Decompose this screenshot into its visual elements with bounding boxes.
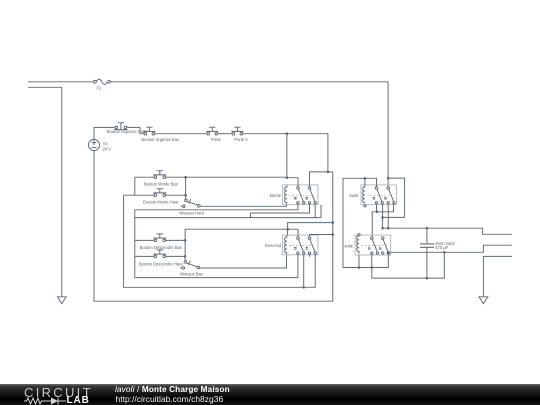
node jog [332,221,335,224]
contact 1 [297,187,300,190]
svg-text:24 V: 24 V [103,146,112,151]
wire descend t1 rail [135,254,298,277]
wire monte t4 stub [315,205,321,218]
fuse F1 [94,79,111,90]
wire stub to ground-left [28,87,62,296]
contact 2 [381,237,384,240]
svg-text:Monte: Monte [270,193,282,198]
voltage source V1 [88,139,111,151]
capacitor start motor [420,228,456,278]
svg-text:Bouton Urgence bas: Bouton Urgence bas [141,137,178,142]
node row2/switch [184,194,187,197]
svg-text:Porte: Porte [211,137,222,142]
wire rail [155,133,207,135]
wire monte t1 rail [135,204,298,278]
pushbutton Bouton Monte Haut [143,189,179,205]
svg-text:Niveaux Haut: Niveaux Haut [179,210,204,215]
svg-text:470 µF: 470 µF [435,245,448,250]
wire suite t2 leg [382,204,384,228]
wire rail to corner [243,134,328,172]
coil [285,235,287,253]
node descend row1 [184,239,187,242]
node monte feed [286,176,289,179]
wire box2 row2 [135,255,154,257]
contact 1 [375,187,378,190]
coil [357,236,359,254]
svg-text:suite: suite [344,243,353,248]
wire big vertical V1-minus [94,151,333,302]
wire suite t3 drop [387,204,389,228]
wire box2 row1 [135,239,154,241]
node row1/switch feed [184,176,187,179]
pushbutton Bouton Descendre Haut [139,250,184,267]
contact 2 [308,187,311,190]
svg-text:Bouton Descendre Bas: Bouton Descendre Bas [140,245,182,250]
relay Monte [270,185,318,205]
coil [363,185,365,203]
wire top rail [28,81,94,83]
wire monte c2 common [310,172,333,187]
wire descend c1 common [288,229,298,237]
relay Descend [265,235,318,255]
node fuse line suite [387,177,390,180]
svg-text:Suite: Suite [349,193,359,198]
svg-text:Descend: Descend [265,243,282,248]
wire suite lower t1 [371,254,373,278]
wire box1 row1 [135,176,154,178]
wire urgence jog [127,127,144,133]
svg-text:Bouton Monte Haut: Bouton Monte Haut [143,200,179,205]
svg-text:V1: V1 [103,141,109,146]
svg-text:Niveaux Bas: Niveaux Bas [180,271,203,276]
svg-text:Bouton Monte Bas: Bouton Monte Bas [144,181,178,186]
relay Suite [349,185,396,207]
pushbutton Bouton Monte Bas [144,171,178,187]
wire cap bottom rail [372,252,445,278]
wire descend c2 common [310,235,333,237]
contact 1 [371,237,374,240]
wire descend jog to big vertical [288,223,333,230]
svg-text:F1: F1 [97,85,103,90]
wire suite lower coil bottom [358,255,360,268]
wire suite coil top loop [343,178,365,267]
coil bottom stub [364,205,366,207]
svg-text:Bouton Urgence Haut: Bouton Urgence Haut [107,129,147,134]
ground [57,297,66,304]
wire motor line B [388,245,512,252]
wire descend t3 stub [309,254,311,256]
wire rail [218,133,232,135]
pushbutton Porte [206,127,222,142]
logo CircuitLab [23,384,123,405]
contact 2 [387,187,390,190]
wire descend t4 rail long loop [124,195,316,287]
footer bar [0,384,540,405]
wire monte t3 rail [251,204,310,218]
wire V1 top [94,127,115,139]
svg-text:Bouton Descendre Haut: Bouton Descendre Haut [139,261,184,266]
coil [285,185,287,203]
wire descend feed up [185,229,288,240]
svg-text:Porte 2: Porte 2 [234,137,248,142]
node junction rail/monte [286,132,289,135]
wire switch feed [185,177,187,199]
wire switch feed [184,240,186,260]
pushbutton Bouton Urgence bas [141,127,178,142]
wire box1 row2 [124,194,154,196]
relay suite lower [344,234,390,255]
contact 1 [297,237,300,240]
wire suite t1 junction [376,204,378,212]
wire niveaux haut out to coil [200,203,286,206]
wire box1 left edge [134,177,136,195]
switch Niveaux Bas [180,261,203,277]
wire descend t2 rail [303,254,305,287]
pushbutton Bouton Descendre Bas [140,234,182,250]
node rail drop [327,171,330,174]
switch Niveaux Haut [179,199,204,215]
pushbutton Porte 2 [231,127,248,142]
wire fuse drop right [387,82,389,187]
wire niveaux bas out to coil [200,253,287,268]
wire suite c1 common feed [365,178,377,186]
wire monte c1 common [287,178,298,187]
ground right [479,297,488,304]
wire coil rail [343,254,388,267]
node descend feed [286,228,289,231]
wire monte feed drop [286,134,288,178]
wire monte t4 rail [135,204,315,218]
node big vertical c2 [332,233,335,236]
pushbutton Bouton Urgence Haut [107,123,147,134]
wire motor line C / ground right [483,256,512,296]
wire suite right loop [383,178,405,217]
node descend row2 [184,255,187,258]
wire descend coil top [287,229,289,235]
contact 2 [308,237,311,240]
wire motor line A [383,228,512,234]
